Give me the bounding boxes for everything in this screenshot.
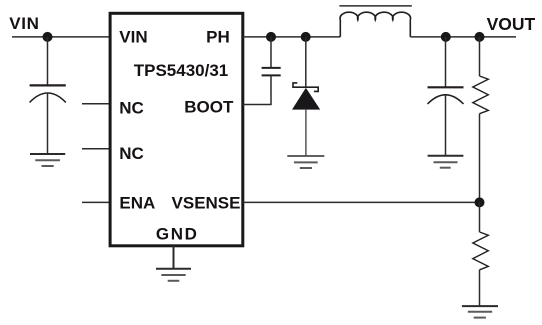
svg-text:NC: NC bbox=[119, 144, 144, 163]
wire stub pin NC2 bbox=[82, 148, 110, 150]
inductor L1 winding bbox=[340, 12, 411, 37]
resistor R2 bbox=[473, 232, 489, 270]
node VOUT junction bbox=[475, 32, 485, 42]
wire node to boot capacitor bbox=[270, 37, 272, 68]
svg-text:TPS5430/31: TPS5430/31 bbox=[134, 61, 229, 80]
ground resistor R2 bbox=[462, 306, 498, 318]
svg-text:VIN: VIN bbox=[9, 14, 39, 33]
node PH to boot capacitor bbox=[266, 32, 276, 42]
svg-text:VSENSE: VSENSE bbox=[172, 194, 241, 213]
wire pin VSENSE to feedback node bbox=[243, 201, 480, 203]
node feedback junction bbox=[475, 197, 485, 207]
diode D1 schottky anode triangle bbox=[292, 88, 319, 109]
svg-text:PH: PH bbox=[206, 28, 230, 47]
svg-text:VIN: VIN bbox=[119, 28, 147, 47]
svg-text:ENA: ENA bbox=[119, 194, 155, 213]
node PH to diode bbox=[301, 32, 311, 42]
svg-text:NC: NC bbox=[119, 99, 144, 118]
wire diode anode to ground bbox=[305, 109, 307, 156]
inductor L1 core line bbox=[339, 5, 411, 7]
svg-text:BOOT: BOOT bbox=[184, 97, 234, 116]
wire VOUT node to resistor R1 bbox=[479, 37, 481, 76]
ground input bbox=[30, 154, 65, 166]
svg-text:VOUT: VOUT bbox=[487, 14, 536, 34]
ground GND pin bbox=[156, 269, 191, 281]
wire input capacitor to ground bbox=[47, 93, 49, 154]
wire boot capacitor to pin BOOT bbox=[243, 75, 271, 104]
wire input VIN to IC pin VIN bbox=[12, 36, 110, 38]
ground output capacitor bbox=[428, 156, 464, 168]
wire pin GND to ground bbox=[173, 246, 175, 269]
node input junction bbox=[43, 32, 53, 42]
IC U1 TPS5430/31 body bbox=[110, 13, 243, 246]
wire pin PH to inductor bbox=[243, 36, 340, 38]
ground diode bbox=[287, 156, 324, 168]
wire output capacitor to ground bbox=[445, 95, 447, 156]
wire stub pin ENA bbox=[82, 201, 110, 203]
capacitor C3 output (polarized) bbox=[428, 87, 464, 104]
wire inductor to VOUT bbox=[410, 36, 516, 38]
resistor R1 bbox=[473, 76, 489, 114]
wire stub pin NC1 bbox=[82, 103, 110, 105]
wire node to input capacitor bbox=[47, 37, 49, 86]
wire feedback node to resistor R2 bbox=[479, 202, 481, 232]
svg-text:GND: GND bbox=[156, 225, 199, 244]
node output capacitor junction bbox=[441, 32, 451, 42]
diode D1 schottky cathode bar bbox=[293, 83, 318, 92]
capacitor C1 input (polarized) bbox=[30, 85, 66, 102]
wire resistor R1 to feedback node bbox=[479, 114, 481, 203]
wire node to output capacitor bbox=[445, 37, 447, 87]
capacitor C2 boot bbox=[262, 68, 281, 76]
wire node to diode cathode bbox=[305, 37, 307, 87]
wire resistor R2 to ground bbox=[479, 270, 481, 306]
